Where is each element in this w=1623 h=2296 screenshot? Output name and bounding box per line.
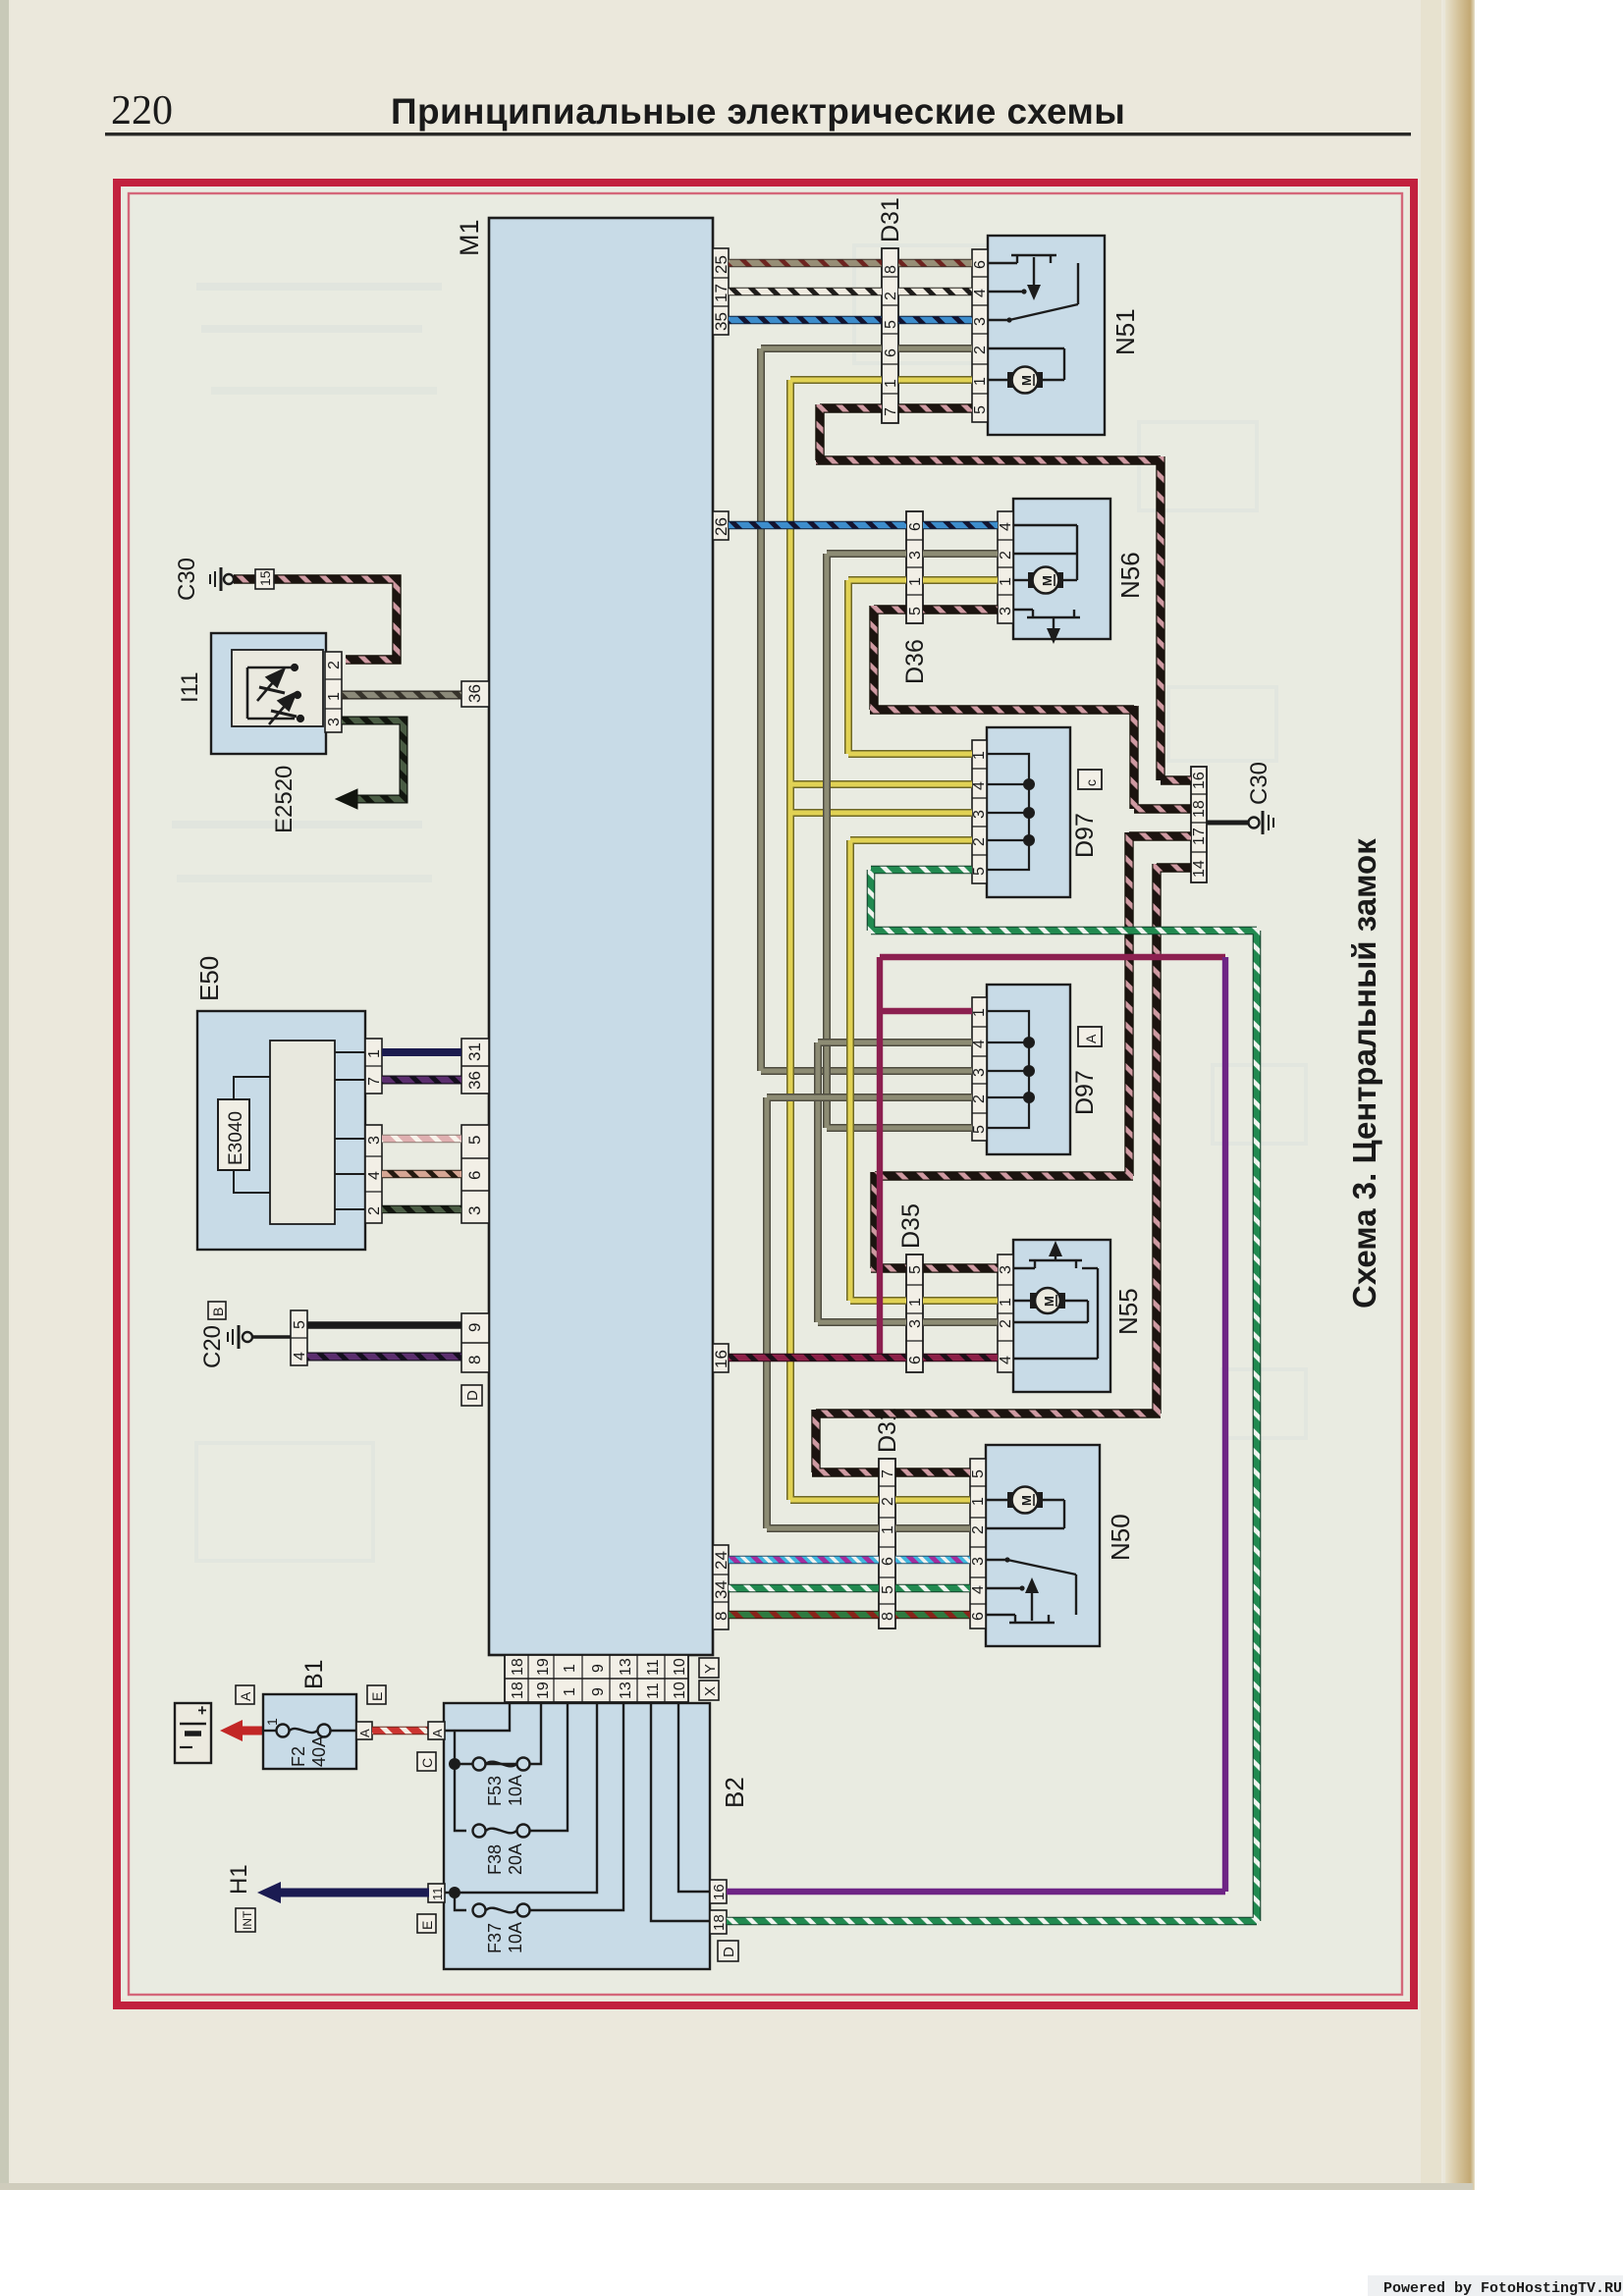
control unit E50 box <box>197 1011 365 1250</box>
svg-text:+: + <box>194 1706 211 1715</box>
D97c internal bus with dots <box>987 754 1029 870</box>
svg-text:6: 6 <box>883 348 899 357</box>
E3040 box <box>218 1099 249 1170</box>
svg-text:I11: I11 <box>177 671 203 703</box>
fuse F38 20A <box>473 1825 530 1838</box>
svg-text:N51: N51 <box>1110 308 1140 355</box>
wire maroon M1-16 branch to D97a-1 and across <box>880 957 1225 1358</box>
svg-text:10: 10 <box>672 1658 688 1676</box>
svg-text:D: D <box>464 1390 481 1401</box>
wire B1-A to B2-A (red/white striped) <box>372 1727 429 1735</box>
diode block D97 A box <box>987 985 1070 1154</box>
label A (battery) <box>236 1685 254 1704</box>
wire M1-8 to D31L-8/N50-6 (green/red striped) <box>729 1611 970 1620</box>
wire M1-25 to D31-8 to N51-6 (gray/red striped) <box>729 259 972 268</box>
label D at B2 right <box>718 1941 738 1961</box>
wire yellow D36-1/N56-1 down to D97c-1 <box>848 580 998 754</box>
I11 internal switch arrows <box>247 665 303 724</box>
svg-text:1: 1 <box>970 1497 987 1506</box>
M1 left pins 5/6/3 <box>461 1125 489 1223</box>
ground connector C30 (right) strip 16/18/17/14 <box>1191 767 1208 882</box>
N56 motor <box>1028 567 1063 594</box>
svg-text:E50: E50 <box>194 956 224 1001</box>
svg-text:6: 6 <box>907 522 924 531</box>
fuse F2 40A <box>263 1725 356 1737</box>
label INT <box>236 1908 255 1932</box>
N55 pin strip <box>998 1255 1014 1372</box>
svg-text:B2: B2 <box>720 1777 749 1808</box>
switch unit I11 box <box>211 633 326 754</box>
svg-text:2: 2 <box>366 1206 383 1215</box>
fuse F53 10A <box>473 1758 530 1771</box>
ECU M1 box <box>489 218 713 1655</box>
svg-text:5: 5 <box>970 1469 987 1478</box>
wire M1-17 to D31-2 to N51-4 (white/black striped) <box>729 288 972 296</box>
svg-text:E: E <box>419 1921 435 1930</box>
wire black/pink C30R-14 to D31L-7/N50-5 <box>812 864 1191 1472</box>
svg-text:18: 18 <box>510 1682 526 1699</box>
svg-text:4: 4 <box>292 1352 308 1361</box>
label X <box>699 1681 719 1700</box>
connector strip cell dividers <box>291 277 1207 1604</box>
svg-text:3: 3 <box>998 1265 1014 1274</box>
svg-text:31: 31 <box>465 1042 484 1061</box>
ground C20 <box>228 1325 291 1349</box>
E50 pin strip 1/7 <box>365 1039 383 1094</box>
connector D31 (lower) <box>879 1459 896 1629</box>
arrow E2520 <box>336 789 357 809</box>
svg-text:1: 1 <box>971 751 988 760</box>
svg-text:25: 25 <box>712 255 730 274</box>
wire E50-4 to M1-6 (pink/black striped) <box>382 1170 461 1179</box>
M1 right pin strip 24/34/8 <box>712 1545 730 1629</box>
svg-text:F53: F53 <box>485 1776 505 1806</box>
svg-text:1: 1 <box>907 577 924 586</box>
N56 pin strip <box>998 511 1014 623</box>
svg-text:X: X <box>702 1686 719 1696</box>
red frame outer <box>117 183 1414 2005</box>
svg-text:17: 17 <box>712 284 730 302</box>
fuse box B2 <box>444 1703 710 1969</box>
svg-text:1: 1 <box>883 379 899 388</box>
label D97 A <box>1071 1027 1102 1115</box>
svg-text:2: 2 <box>998 1319 1014 1328</box>
junction dots in B2 <box>449 1758 460 1770</box>
svg-text:5: 5 <box>880 1585 896 1594</box>
N56 internals <box>1013 525 1080 636</box>
svg-text:9: 9 <box>465 1323 484 1332</box>
E50 internal links <box>234 1052 365 1209</box>
ground C30 (top left) <box>210 567 234 591</box>
svg-text:19: 19 <box>535 1682 552 1699</box>
svg-text:8: 8 <box>712 1612 730 1621</box>
svg-text:1: 1 <box>971 1008 988 1017</box>
svg-text:A: A <box>430 1729 445 1737</box>
svg-text:4: 4 <box>998 522 1014 531</box>
M1 left pin 36 (to I11) <box>461 681 489 707</box>
svg-text:1: 1 <box>998 577 1014 586</box>
svg-text:13: 13 <box>618 1658 634 1676</box>
svg-text:5: 5 <box>907 607 924 615</box>
N50 motor <box>1007 1487 1043 1514</box>
svg-text:14: 14 <box>1191 860 1208 878</box>
svg-text:4: 4 <box>970 1585 987 1594</box>
svg-text:2: 2 <box>998 551 1014 560</box>
wire gray D97a-4 down to D35-3/N55-2 <box>818 1042 998 1322</box>
svg-text:9: 9 <box>590 1687 607 1696</box>
N50 pin strip <box>970 1459 987 1629</box>
fuse box B1 <box>263 1694 356 1769</box>
N51 pin strip <box>972 249 989 422</box>
svg-text:D36: D36 <box>901 639 929 684</box>
svg-text:6: 6 <box>970 1612 987 1621</box>
svg-text:11: 11 <box>645 1659 662 1676</box>
svg-text:F38: F38 <box>485 1844 505 1875</box>
svg-text:7: 7 <box>880 1469 896 1478</box>
connector D36 <box>906 511 924 623</box>
N51 motor <box>1007 367 1043 394</box>
N50 internals: motor, switch, lock symbol <box>986 1500 1076 1623</box>
svg-text:7: 7 <box>883 407 899 416</box>
wire M1-35 to D31-5 to N51-3 (blue/black striped) <box>729 316 972 325</box>
svg-text:3: 3 <box>972 317 989 326</box>
battery <box>175 1703 211 1763</box>
svg-text:35: 35 <box>712 312 730 331</box>
svg-text:16: 16 <box>1191 772 1208 789</box>
svg-text:1: 1 <box>562 1687 578 1696</box>
svg-text:F37: F37 <box>485 1923 505 1953</box>
svg-text:11: 11 <box>645 1682 662 1699</box>
C20 pin strip 5/4 <box>291 1310 308 1365</box>
svg-text:Powered by FotoHostingTV.RU: Powered by FotoHostingTV.RU <box>1383 2280 1622 2296</box>
svg-text:H1: H1 <box>226 1864 252 1895</box>
wire battery feed (red arrow) <box>239 1727 263 1735</box>
left scan sliver <box>0 0 9 2190</box>
svg-text:6: 6 <box>880 1557 896 1566</box>
svg-text:C30: C30 <box>1246 762 1272 805</box>
svg-text:5: 5 <box>292 1320 308 1329</box>
svg-text:4: 4 <box>972 289 989 297</box>
svg-text:C: C <box>419 1758 435 1768</box>
svg-text:13: 13 <box>618 1682 634 1699</box>
wire I11 pin3 to E2520 (dark green/black) <box>342 721 404 799</box>
svg-text:8: 8 <box>880 1612 896 1621</box>
svg-text:Y: Y <box>702 1664 719 1674</box>
svg-text:B1: B1 <box>300 1659 328 1689</box>
pin box 15 on wire <box>255 569 274 589</box>
wire M1-26 to D36-6 to N56-4 (blue/black striped) <box>729 521 998 530</box>
svg-text:A: A <box>238 1691 253 1701</box>
svg-text:10A: 10A <box>506 1922 525 1953</box>
wire M1-24 to D31L-6/N50-3 (cyan/magenta striped) <box>729 1556 970 1565</box>
svg-text:10: 10 <box>672 1682 688 1699</box>
wire ground C30 to I11 pin2 (black/pink) <box>234 579 397 660</box>
svg-text:D97: D97 <box>1071 1070 1099 1115</box>
E50 pin strip 3/4/2 <box>365 1125 383 1223</box>
svg-text:5: 5 <box>465 1136 484 1145</box>
lock motor N56 box <box>1013 499 1110 639</box>
label E (below 11) <box>417 1914 436 1933</box>
svg-text:3: 3 <box>971 1068 988 1077</box>
svg-text:INT: INT <box>241 1910 254 1930</box>
svg-text:B: B <box>210 1308 226 1316</box>
svg-text:1: 1 <box>972 377 989 386</box>
B2 internal wiring <box>445 1702 710 1921</box>
svg-text:4: 4 <box>366 1171 383 1180</box>
svg-text:1: 1 <box>998 1298 1014 1307</box>
D97a pin strip <box>971 997 988 1141</box>
svg-text:5: 5 <box>971 867 988 876</box>
M1 left pins 9/8 <box>461 1313 489 1372</box>
svg-text:7: 7 <box>366 1077 383 1086</box>
svg-text:6: 6 <box>972 260 989 269</box>
svg-text:2: 2 <box>970 1525 987 1534</box>
svg-text:2: 2 <box>972 346 989 354</box>
svg-text:3: 3 <box>326 718 343 726</box>
pin A box on B2 left <box>428 1722 445 1739</box>
label D97 c <box>1071 770 1102 858</box>
svg-text:15: 15 <box>257 570 273 586</box>
D97a internal bus with dots <box>987 1011 1029 1128</box>
svg-text:3: 3 <box>907 1319 924 1328</box>
svg-text:36: 36 <box>465 684 484 703</box>
pin 11 box on B2 left <box>428 1884 445 1902</box>
svg-text:220: 220 <box>111 88 173 133</box>
wire E50-1 to M1-31 (navy) <box>382 1048 461 1056</box>
svg-text:5: 5 <box>883 320 899 329</box>
svg-text:D: D <box>721 1947 737 1957</box>
svg-text:D35: D35 <box>897 1203 925 1249</box>
svg-text:18: 18 <box>711 1914 728 1931</box>
svg-text:Принципиальные электрические с: Принципиальные электрические схемы <box>391 91 1125 132</box>
wire C20-5 to M1-9 (black) <box>307 1321 461 1329</box>
svg-text:6: 6 <box>465 1171 484 1180</box>
svg-text:M: M <box>1040 575 1055 586</box>
M1 right pin 26 <box>712 511 730 540</box>
svg-text:4: 4 <box>971 1040 988 1048</box>
fuse F37 10A <box>473 1904 530 1917</box>
wire gray D36-3/N56-2 down to D97a-5 <box>827 554 998 1128</box>
B2 right pin 16 <box>710 1880 728 1903</box>
wire gray D97a-2 down to D31L-1/N50-2 <box>767 1097 972 1528</box>
ground C30 right <box>1207 811 1273 834</box>
M1 right pin strip 25/17/35 <box>712 248 730 335</box>
svg-text:N50: N50 <box>1106 1514 1135 1561</box>
wire yellow D31-1/N51-1 down to D31L-2/N50-1 with stubs to D97c <box>790 380 972 1500</box>
svg-text:3: 3 <box>971 810 988 819</box>
svg-text:40A: 40A <box>309 1735 329 1767</box>
wire black/pink C30R-17 to D35-5/N55-3 <box>871 832 1191 1268</box>
svg-text:16: 16 <box>712 1350 730 1368</box>
svg-text:1: 1 <box>907 1298 924 1307</box>
svg-text:34: 34 <box>712 1580 730 1599</box>
wire E50-2 to M1-3 (green/black striped) <box>382 1205 461 1214</box>
red frame inner <box>129 193 1402 1995</box>
svg-text:1: 1 <box>366 1049 383 1058</box>
svg-text:4: 4 <box>971 781 988 790</box>
right page edge band <box>1445 0 1475 2190</box>
svg-text:F2: F2 <box>289 1746 308 1767</box>
label D at M1 left <box>461 1385 482 1406</box>
M1 bottom pin strip double row <box>505 1655 688 1702</box>
svg-text:2: 2 <box>880 1497 896 1506</box>
paper bottom shadow edge <box>0 2183 1473 2190</box>
svg-text:3: 3 <box>907 551 924 560</box>
wire yellow D97c-2 down to D35-1/N55-1 <box>850 840 998 1301</box>
wire green/white D97c-5 to B2-18 <box>727 870 1257 1921</box>
svg-text:18: 18 <box>1191 800 1208 818</box>
B2 right pin 18 <box>710 1910 728 1934</box>
svg-text:5: 5 <box>971 1125 988 1134</box>
label E (above B1 right) <box>367 1685 386 1704</box>
lock actuator N51 box <box>988 236 1105 435</box>
svg-text:2: 2 <box>326 661 343 669</box>
svg-text:36: 36 <box>465 1071 484 1090</box>
wire M1-34 to D31L-5/N50-4 (green/white striped) <box>729 1584 970 1593</box>
wire black/pink D31-7/N51-5 to C30R-16 <box>816 404 1191 780</box>
N51 internals: lock symbol, switch, motor <box>988 255 1078 380</box>
svg-text:5: 5 <box>972 405 989 414</box>
svg-text:4: 4 <box>998 1356 1014 1364</box>
diode block D97 c box <box>987 727 1070 897</box>
svg-text:N55: N55 <box>1113 1288 1143 1335</box>
wire I11 pin1 to M1 pin36 (gray striped) <box>342 691 461 700</box>
svg-text:1: 1 <box>880 1525 896 1534</box>
faint showthrough ghosts <box>172 287 687 879</box>
M1 right pin 16 <box>712 1344 730 1372</box>
svg-text:C30: C30 <box>174 558 200 601</box>
I11 pin strip 2/1/3 <box>325 652 343 732</box>
svg-text:c: c <box>1083 779 1099 786</box>
title rule <box>105 133 1411 135</box>
svg-text:3: 3 <box>998 607 1014 615</box>
svg-text:M: M <box>1019 1495 1034 1506</box>
label Y <box>699 1658 719 1678</box>
svg-text:M: M <box>1042 1296 1056 1307</box>
svg-text:8: 8 <box>465 1356 484 1364</box>
svg-text:A: A <box>1083 1034 1099 1043</box>
svg-text:D31: D31 <box>877 197 904 242</box>
N55 motor <box>1030 1288 1065 1313</box>
svg-text:20A: 20A <box>506 1843 525 1875</box>
svg-text:1: 1 <box>326 692 343 701</box>
svg-text:19: 19 <box>535 1658 552 1676</box>
wire gray D31-6/N51-2 to D97a-3 <box>761 348 972 1071</box>
connector D35 <box>906 1255 924 1372</box>
pin A on B1 <box>356 1722 372 1739</box>
svg-text:1: 1 <box>264 1718 280 1726</box>
svg-text:E3040: E3040 <box>226 1111 246 1165</box>
N55 internals <box>1013 1249 1098 1359</box>
svg-text:3: 3 <box>366 1136 383 1145</box>
svg-text:M: M <box>1019 375 1034 386</box>
svg-text:17: 17 <box>1191 828 1208 845</box>
D97c pin strip <box>971 740 988 883</box>
svg-text:2: 2 <box>971 837 988 846</box>
svg-text:C20: C20 <box>199 1325 226 1368</box>
svg-text:3: 3 <box>465 1206 484 1215</box>
svg-text:26: 26 <box>712 517 730 536</box>
wire purple down to B2-16 <box>727 957 1225 1892</box>
M1 left pins 31/36 <box>461 1039 489 1094</box>
wire H1 (navy arrow) <box>275 1889 429 1897</box>
wire black/pink D36-5/N56-3 to C30R-18 <box>870 606 1191 809</box>
wire E50-7 to M1-36 (purple/black striped) <box>382 1076 461 1085</box>
lock actuator N50 box <box>986 1445 1100 1646</box>
label C20 B <box>199 1302 226 1368</box>
svg-text:1: 1 <box>562 1664 578 1673</box>
wire C20-4 to M1-8 (purple/black striped) <box>307 1353 461 1362</box>
svg-text:16: 16 <box>711 1884 728 1900</box>
svg-text:9: 9 <box>590 1664 607 1673</box>
svg-text:6: 6 <box>907 1356 924 1364</box>
svg-text:D97: D97 <box>1071 813 1099 858</box>
watermark Powered by FotoHostingTV.RU <box>1368 2275 1623 2296</box>
svg-text:A: A <box>357 1729 372 1737</box>
svg-text:M1: M1 <box>455 219 484 256</box>
connector D31 (upper) <box>882 248 899 423</box>
wire E50-3 to M1-5 (pink/white striped) <box>382 1135 461 1144</box>
wire maroon/black striped M1-16 to D35-6/N55-4 <box>729 1354 998 1362</box>
svg-text:Схема 3. Центральный замок: Схема 3. Центральный замок <box>1346 838 1382 1308</box>
svg-text:2: 2 <box>883 292 899 300</box>
label C <box>417 1752 436 1771</box>
svg-text:10A: 10A <box>506 1775 525 1806</box>
svg-text:8: 8 <box>883 265 899 274</box>
svg-text:3: 3 <box>970 1557 987 1566</box>
svg-text:5: 5 <box>907 1265 924 1274</box>
svg-text:E2520: E2520 <box>271 766 298 833</box>
interior tint inside frame <box>121 187 1406 1998</box>
svg-text:11: 11 <box>430 1888 445 1901</box>
svg-text:2: 2 <box>971 1095 988 1103</box>
svg-text:E: E <box>369 1692 385 1701</box>
svg-text:N56: N56 <box>1115 552 1145 599</box>
lock motor N55 box <box>1013 1240 1110 1392</box>
svg-text:18: 18 <box>510 1658 526 1676</box>
svg-text:24: 24 <box>712 1551 730 1570</box>
